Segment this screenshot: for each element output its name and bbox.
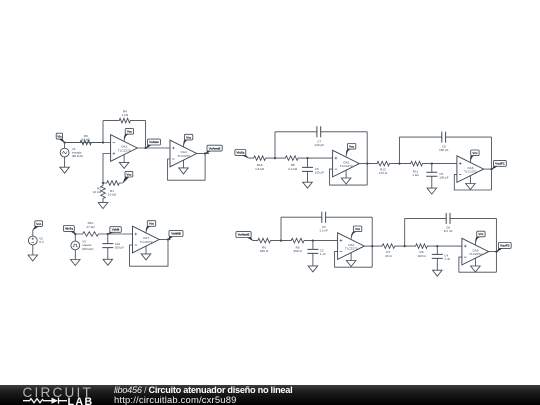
capacitor C10 [102, 234, 113, 259]
footer url line [114, 394, 237, 405]
junction OA3 output [371, 245, 373, 247]
net flag VinSq source [63, 226, 75, 235]
footer bar [0, 385, 540, 405]
wire OA4 output [197, 153, 209, 155]
net flag VoutF2 [497, 243, 511, 252]
resistor R7 [372, 244, 405, 249]
op-amp OA5 [462, 238, 489, 265]
junction C4 node [436, 245, 438, 247]
wire feedback down [145, 121, 147, 148]
junction inverting input node [102, 141, 104, 143]
capacitor C4 [432, 246, 443, 270]
resistor R11 [399, 161, 431, 166]
junction Vin node [63, 141, 65, 143]
power flag Vcc OA7 [146, 221, 156, 233]
resistor R16 [249, 156, 275, 161]
op-amp OA6 [457, 156, 484, 183]
wire C4 node to OA5 [437, 245, 462, 247]
wire OA5 output [489, 251, 498, 253]
CircuitLab logo wordmark LAB [68, 396, 94, 405]
power flag Vcc R1 [123, 171, 133, 183]
power flag Vcc OA5 [475, 231, 485, 245]
wire non-inverting input to divider [103, 154, 111, 184]
capacitor C2 [307, 241, 318, 266]
wire C2 node to OA3 [313, 240, 338, 242]
wire OA6 output [484, 168, 493, 170]
junction C5 node [431, 162, 433, 164]
ground for C5 [427, 188, 437, 194]
op-amp OA2 [333, 150, 360, 177]
resistor R8 row1 [275, 156, 308, 161]
junction OA4 output [204, 152, 206, 154]
junction row1 stage2 tap [398, 162, 400, 164]
wire row1 stage2 feedback up [398, 137, 400, 164]
junction V3 node [74, 233, 76, 235]
ground for OA7 [145, 246, 147, 254]
wire OA4 feedback loop [168, 154, 206, 181]
power flag Vcc OA6 [470, 150, 479, 162]
ground for C4 [433, 270, 443, 276]
ground for V3 [74, 250, 76, 260]
wire OA5 feedback loop [459, 257, 497, 272]
wire OA7 feedback loop [130, 240, 169, 267]
capacitor C6 [302, 158, 313, 182]
voltage source V2 [32, 230, 34, 236]
wire OA3 feedback loop [335, 252, 373, 268]
wire row1 feedback right down [366, 132, 368, 185]
junction OA6 output [490, 168, 492, 170]
net flag VoAtenB filter input [236, 232, 253, 241]
net flag VoAtenB [206, 145, 222, 153]
capacitor C5 [426, 164, 437, 189]
wire OA3 output [364, 245, 372, 247]
ground for OA2 [345, 170, 347, 178]
ground for C10 [103, 259, 113, 265]
ground for V2 [32, 245, 34, 255]
wire Vshift to OA7 [108, 233, 133, 235]
power flag Vcc OA1 [124, 129, 134, 142]
ground for OA1 [123, 155, 125, 163]
op-amp OA7 [133, 226, 160, 253]
resistor R4 [103, 118, 146, 123]
junction divider node [102, 182, 104, 184]
capacitor C9 [399, 132, 491, 143]
power flag Vcc OA3 [351, 226, 362, 239]
ground for OA5 [474, 258, 476, 266]
net flag VinSq filter input [235, 150, 249, 159]
voltage source V3 [74, 234, 76, 241]
wire OA2 feedback loop [330, 169, 368, 185]
power flag Vcc OA4 [183, 134, 192, 147]
wire C6 node to OA2 [308, 157, 333, 159]
resistor R1 [103, 181, 123, 186]
junction OA1 output [144, 147, 146, 149]
wire OA2 output [359, 163, 367, 165]
junction Vshift node [107, 233, 109, 235]
net flag Vin [56, 133, 64, 142]
resistor R2 [101, 183, 106, 203]
ground for C6 [303, 182, 313, 188]
ground for OA3 [350, 253, 352, 261]
footer title line [114, 385, 292, 395]
junction C2 node [312, 239, 314, 241]
op-amp OA3 [338, 233, 365, 260]
junction OA5 output [495, 250, 497, 252]
junction C6 node [306, 157, 308, 159]
ground for C2 [308, 266, 318, 272]
wire OA7 output [159, 239, 170, 241]
wire row2 stage2 feedback right down [495, 218, 497, 272]
ground for OA4 [183, 160, 185, 168]
ground for V4 [64, 157, 66, 167]
net flag VoutF1 [492, 160, 506, 169]
wire row2 feedback right down [371, 217, 373, 267]
resistor R5 [281, 238, 313, 243]
ground for R2 [98, 203, 108, 209]
junction row2 feedback tap [280, 239, 282, 241]
resistor R6 [253, 238, 281, 243]
wire input net [65, 142, 111, 144]
junction OA2 output [366, 162, 368, 164]
op-amp OA4 [170, 140, 197, 167]
junction OA7 output [167, 238, 169, 240]
wire C5 node to OA6 [432, 163, 457, 165]
junction row1 feedback tap [274, 157, 276, 159]
capacitor C6 row2 [405, 213, 497, 224]
resistor R8 row2 [405, 244, 438, 249]
op-amp OA1 [111, 135, 138, 162]
wire row1 feedback up [274, 132, 276, 158]
resistor R10 [75, 232, 108, 237]
resistor R12 [367, 161, 399, 166]
CircuitLab logo wordmark CIRCUIT [23, 385, 94, 400]
resistor R9 [65, 140, 103, 145]
wire row2 feedback up [280, 217, 282, 240]
voltage source V4 [64, 143, 66, 149]
wire feedback up [102, 121, 104, 143]
power flag Vcc V2 [33, 221, 43, 230]
wire OA1 output [137, 147, 170, 149]
net flag Vshift [108, 227, 121, 234]
wire OA6 feedback loop [454, 175, 491, 190]
capacitor C3 [281, 212, 372, 223]
wire row2 stage2 feedback up [404, 218, 406, 246]
wire row1 stage2 feedback right down [491, 137, 493, 190]
power flag Vcc OA2 [346, 144, 356, 157]
ground for OA6 [469, 176, 471, 184]
junction row2 stage2 tap [404, 245, 406, 247]
capacitor C7 [275, 126, 367, 137]
net flag VoAten [146, 139, 160, 148]
net flag VshiftB [169, 231, 184, 240]
